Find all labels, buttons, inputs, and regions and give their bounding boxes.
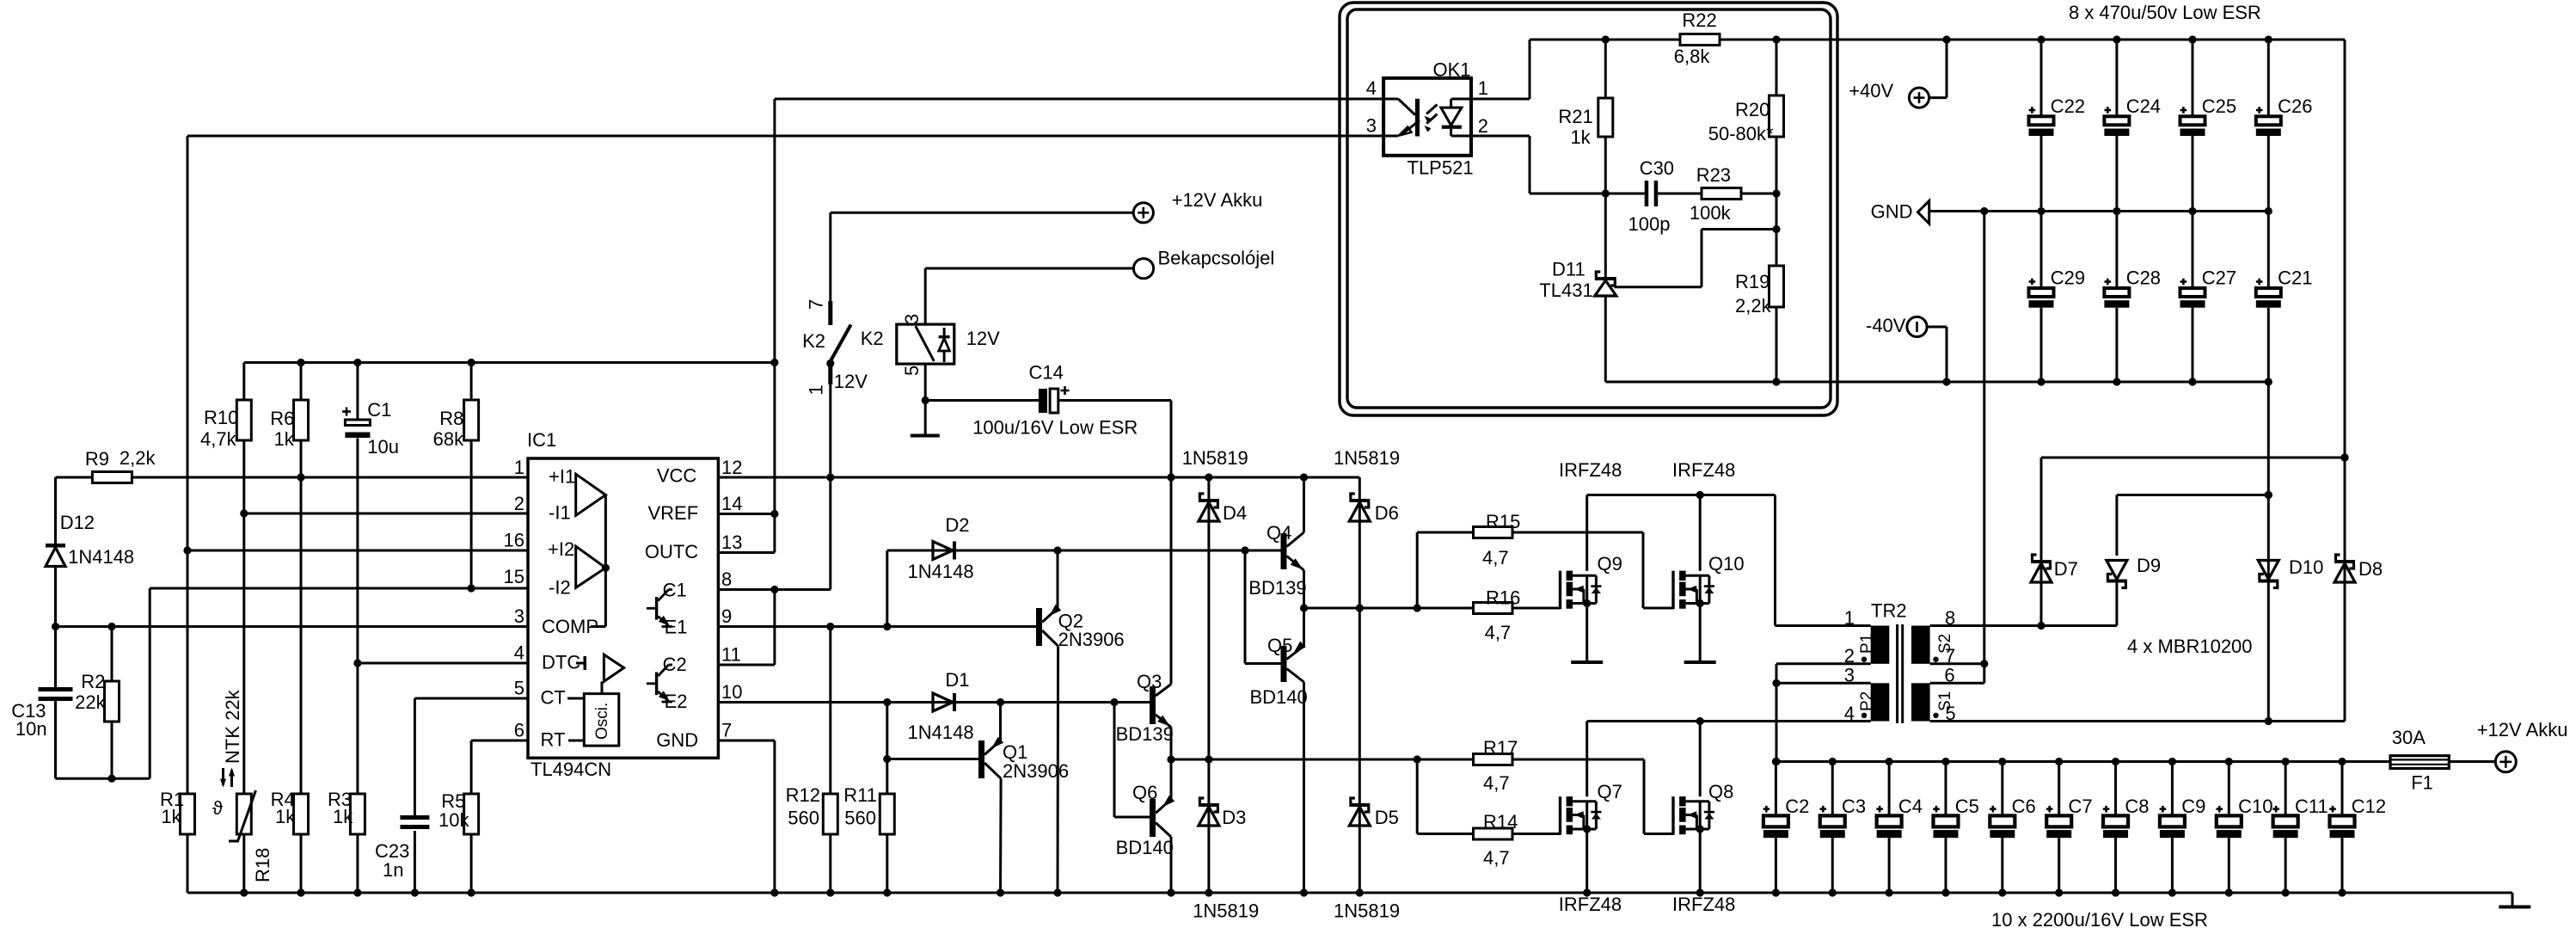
svg-text:R9: R9 bbox=[85, 448, 109, 470]
svg-text:D3: D3 bbox=[1222, 807, 1246, 828]
svg-text:D10: D10 bbox=[2289, 556, 2323, 578]
wire Q10 source to ground bbox=[1699, 604, 1702, 663]
svg-text:30A: 30A bbox=[2392, 727, 2426, 748]
svg-text:C14: C14 bbox=[1029, 362, 1064, 384]
svg-text:S2: S2 bbox=[1936, 634, 1954, 654]
diode D1 1N4148 bbox=[908, 669, 974, 743]
wire ground bus (bottom) bbox=[187, 888, 2512, 906]
svg-text:K2: K2 bbox=[861, 328, 884, 349]
capacitor C21 470u/50v bbox=[2256, 212, 2313, 383]
wire -40V rail bbox=[1605, 378, 2272, 385]
capacitor C4 2200u/16V bbox=[1876, 762, 1923, 894]
wire GND pin7 drop bbox=[718, 740, 775, 893]
svg-text:10: 10 bbox=[721, 681, 742, 703]
svg-text:R10: R10 bbox=[204, 407, 238, 428]
terminal Bekapcsolojel bbox=[1133, 248, 1274, 279]
wire vertical x=901 (pin4 line down to VREF/OUTC) bbox=[770, 99, 778, 553]
resistor R19 2,2k bbox=[1735, 194, 1783, 386]
svg-text:16: 16 bbox=[504, 530, 524, 551]
svg-text:R6: R6 bbox=[270, 408, 294, 429]
wire DTC row bbox=[353, 659, 528, 667]
thermistor R18 NTK 22k bbox=[212, 689, 273, 882]
resistor R4 1k bbox=[271, 789, 309, 834]
resistor R1 1k bbox=[160, 789, 195, 834]
svg-text:Bekapcsolójel: Bekapcsolójel bbox=[1158, 248, 1275, 269]
svg-text:R23: R23 bbox=[1696, 164, 1731, 186]
resistor R11 560 bbox=[843, 784, 894, 834]
diode D2 1N4148 bbox=[908, 514, 974, 582]
capacitor C14 100u/16V Low ESR bbox=[972, 362, 1138, 439]
wire R2 column bbox=[111, 627, 113, 779]
svg-text:2N3906: 2N3906 bbox=[1003, 760, 1069, 782]
wire net OK1 pin 3 line (top horizontal 2) bbox=[187, 135, 1383, 138]
wire net OUTC-to-OK1 pin 4 (top horizontal) bbox=[775, 98, 1383, 101]
capacitor C1 10u bbox=[342, 399, 399, 458]
svg-text:E1: E1 bbox=[665, 617, 688, 638]
svg-text:Q9: Q9 bbox=[1598, 553, 1622, 575]
svg-text:C26: C26 bbox=[2278, 95, 2312, 117]
svg-text:Q5: Q5 bbox=[1267, 635, 1292, 656]
svg-text:68k: 68k bbox=[433, 428, 464, 450]
wire DTC buffer to oscillator bbox=[601, 681, 604, 693]
switch K2 contact bbox=[802, 299, 884, 477]
wire D11 ref bbox=[1615, 225, 1781, 287]
svg-text:R8: R8 bbox=[439, 408, 463, 429]
svg-text:R22: R22 bbox=[1682, 9, 1716, 31]
svg-text:12: 12 bbox=[721, 457, 742, 478]
wire R6/R4 column bbox=[300, 363, 303, 894]
svg-text:12V: 12V bbox=[834, 371, 868, 392]
svg-text:OUTC: OUTC bbox=[645, 541, 698, 562]
capacitor C10 2200u/16V bbox=[2216, 762, 2272, 894]
diode D8 MBR10200 bbox=[2334, 40, 2383, 722]
wire bus y=421 over R10/R6/C1/R8 bbox=[244, 359, 775, 366]
svg-text:4: 4 bbox=[1844, 703, 1855, 724]
capacitor C23 1n bbox=[375, 815, 429, 881]
wire Q6 emitter up bbox=[1170, 759, 1173, 799]
diode D3 1N5819 bbox=[1193, 798, 1259, 922]
ground chassis Q9 bbox=[1571, 661, 1603, 664]
oscillator box inside IC1 bbox=[584, 694, 619, 747]
svg-text:12V: 12V bbox=[966, 328, 1000, 349]
svg-text:1k: 1k bbox=[333, 806, 353, 827]
capacitor C27 470u/50v bbox=[2180, 212, 2237, 383]
svg-text:COMP: COMP bbox=[542, 616, 598, 637]
resistor R2 22k bbox=[75, 671, 119, 722]
fuse F1 30A bbox=[2390, 727, 2449, 794]
svg-text:1N5819: 1N5819 bbox=[1334, 447, 1400, 469]
wire Q8 source to bus bbox=[1699, 829, 1702, 893]
svg-text:C1: C1 bbox=[663, 580, 687, 601]
svg-text:2,2k: 2,2k bbox=[120, 447, 156, 469]
svg-text:C29: C29 bbox=[2051, 267, 2085, 289]
svg-text:TR2: TR2 bbox=[1871, 600, 1907, 622]
transistor Q7 IRFZ48 bbox=[1559, 781, 1622, 915]
wire CT to oscillator bbox=[567, 697, 584, 700]
svg-text:10n: 10n bbox=[15, 718, 47, 740]
wire Q7 source to bus bbox=[1585, 829, 1588, 893]
svg-text:P1: P1 bbox=[1858, 634, 1876, 654]
svg-text:IRFZ48: IRFZ48 bbox=[1559, 459, 1622, 481]
wire Q3 emitter down bbox=[1170, 728, 1173, 760]
svg-text:CT: CT bbox=[541, 687, 566, 709]
svg-text:4,7k: 4,7k bbox=[200, 428, 237, 450]
svg-text:1N5819: 1N5819 bbox=[1334, 900, 1400, 922]
wire gate line lower (Q3/Q6 emitters) bbox=[1167, 755, 1673, 833]
svg-text:1: 1 bbox=[806, 384, 827, 395]
ground chassis at C14 bbox=[911, 434, 940, 438]
svg-text:D9: D9 bbox=[2137, 555, 2161, 576]
capacitor C5 2200u/16V bbox=[1933, 762, 1979, 894]
transistor internal T1 (C1/E1) inside IC1 bbox=[647, 590, 672, 627]
svg-text:S1: S1 bbox=[1936, 691, 1954, 711]
svg-text:+12V Akku: +12V Akku bbox=[1172, 189, 1263, 211]
diode D4 1N5819 bbox=[1182, 447, 1248, 524]
transformer TR2 bbox=[1844, 600, 1956, 725]
svg-text:1N4148: 1N4148 bbox=[908, 722, 974, 743]
svg-text:BD139: BD139 bbox=[1116, 723, 1174, 745]
svg-text:D12: D12 bbox=[60, 512, 95, 533]
wire GND vertical bbox=[1983, 212, 1985, 664]
svg-text:+I2: +I2 bbox=[548, 538, 574, 560]
svg-text:50-80k*: 50-80k* bbox=[1708, 123, 1774, 144]
svg-text:560: 560 bbox=[788, 808, 819, 829]
wire Q2 emitter up bbox=[1057, 550, 1059, 608]
capacitor C9 2200u/16V bbox=[2160, 762, 2206, 894]
svg-text:4,7: 4,7 bbox=[1483, 847, 1510, 869]
IC1 part number label bbox=[531, 759, 611, 780]
wire +12V Akku feed bbox=[831, 212, 1134, 301]
svg-text:1: 1 bbox=[1478, 77, 1488, 99]
IC1 internal pin name labels bbox=[541, 465, 699, 752]
wire -40V link line y=532 bbox=[2041, 453, 2349, 555]
svg-text:C6: C6 bbox=[2012, 796, 2036, 817]
wire C1/C2 pin tie bbox=[718, 477, 830, 665]
svg-text:Q7: Q7 bbox=[1598, 781, 1622, 802]
capacitor C6 2200u/16V bbox=[1990, 762, 2036, 894]
svg-text:4: 4 bbox=[1366, 77, 1377, 99]
wire Q9 source to ground bbox=[1585, 604, 1588, 663]
svg-text:C2: C2 bbox=[663, 654, 687, 675]
relay K2 coil 12V bbox=[897, 314, 1000, 376]
svg-text:R19: R19 bbox=[1735, 271, 1769, 292]
wire Q6 base branch bbox=[1114, 703, 1150, 818]
svg-text:100u/16V Low ESR: 100u/16V Low ESR bbox=[972, 417, 1138, 439]
capacitor C11 2200u/16V bbox=[2272, 762, 2328, 894]
capacitor C8 2200u/16V bbox=[2103, 762, 2150, 894]
svg-text:Q10: Q10 bbox=[1708, 553, 1745, 575]
transistor Q8 IRFZ48 bbox=[1672, 781, 1735, 915]
label 4 x MBR10200 bbox=[2127, 636, 2253, 657]
svg-text:GND: GND bbox=[1871, 201, 1913, 223]
svg-text:4 x MBR10200: 4 x MBR10200 bbox=[2127, 636, 2253, 657]
svg-text:8 x 470u/50v Low ESR: 8 x 470u/50v Low ESR bbox=[2069, 2, 2261, 23]
wire -I1 row bbox=[240, 509, 528, 517]
transistor Q2 2N3906 bbox=[1036, 605, 1125, 650]
wire comparator outputs to COMP pin bbox=[591, 495, 610, 627]
wire D6/D5 column bbox=[1359, 477, 1361, 893]
transistor internal T2 (C2/E2) inside IC1 bbox=[647, 665, 672, 702]
transistor Q3 BD139 bbox=[1116, 671, 1174, 745]
resistor R5 10k bbox=[439, 790, 479, 834]
svg-text:+12V Akku: +12V Akku bbox=[2477, 719, 2568, 740]
svg-text:C4: C4 bbox=[1898, 796, 1923, 817]
wire R9 left to D12 bbox=[56, 477, 93, 544]
wire C14 to VCC/Q3 column bbox=[1058, 401, 1171, 478]
svg-text:E2: E2 bbox=[665, 691, 688, 712]
wire Q3 collector column bbox=[1170, 477, 1173, 685]
svg-text:R12: R12 bbox=[786, 784, 820, 806]
svg-text:DTC: DTC bbox=[542, 652, 580, 673]
resistor R3 1k bbox=[328, 789, 365, 834]
terminal -40V bbox=[1866, 315, 1947, 382]
terminal +12V Akku (right) bbox=[2477, 719, 2568, 772]
wire drain rail to TR2 pin 1 bbox=[1587, 491, 1871, 626]
svg-text:P2: P2 bbox=[1858, 691, 1876, 711]
svg-text:C12: C12 bbox=[2352, 796, 2386, 817]
wire COMP row bbox=[52, 623, 528, 630]
wire C23 column bbox=[414, 831, 416, 893]
svg-text:GND: GND bbox=[656, 729, 698, 751]
transistor Q5 BD140 bbox=[1250, 635, 1308, 708]
svg-text:+I1: +I1 bbox=[549, 466, 575, 488]
wire Q5 collector down bbox=[1303, 682, 1305, 893]
op-amp IC1 TL494CN box bbox=[528, 458, 718, 758]
resistor R8 68k bbox=[433, 400, 479, 450]
svg-text:3: 3 bbox=[1844, 665, 1855, 686]
svg-text:6,8k: 6,8k bbox=[1674, 46, 1711, 67]
IC1 pin numbers bbox=[504, 457, 743, 741]
svg-text:C2: C2 bbox=[1785, 796, 1809, 817]
resistor R12 560 bbox=[786, 784, 838, 834]
terminal +12V Akku (top) bbox=[1133, 189, 1262, 223]
wire RT to oscillator bbox=[568, 740, 584, 742]
capacitor C28 470u/50v bbox=[2104, 212, 2161, 383]
wire TR2 pin 6 jog bbox=[1930, 664, 1984, 684]
resistor R22 6,8k bbox=[1674, 9, 1720, 67]
svg-text:C7: C7 bbox=[2069, 796, 2093, 817]
svg-text:C24: C24 bbox=[2126, 95, 2161, 117]
svg-text:IC1: IC1 bbox=[527, 429, 556, 451]
ground chassis Q10 bbox=[1684, 661, 1716, 664]
svg-text:D5: D5 bbox=[1375, 807, 1399, 828]
svg-text:8: 8 bbox=[721, 568, 732, 590]
transistor Q1 2N3906 bbox=[978, 737, 1069, 782]
wire TR2 pins 2/3 center tap bbox=[1772, 664, 1870, 765]
svg-text:BD140: BD140 bbox=[1116, 837, 1174, 858]
capacitor C13 10n bbox=[11, 687, 72, 740]
resistor R21 1k bbox=[1558, 40, 1612, 194]
wire R8/R5 column bbox=[470, 363, 473, 894]
svg-text:22k: 22k bbox=[75, 691, 106, 713]
op-amp comparator 1 inside IC1 bbox=[576, 474, 606, 515]
svg-text:D2: D2 bbox=[945, 514, 969, 536]
transistor Q9 IRFZ48 bbox=[1559, 459, 1622, 609]
wire D12/C13 column bbox=[54, 566, 57, 778]
svg-text:1n: 1n bbox=[383, 859, 403, 881]
svg-text:2,2k: 2,2k bbox=[1735, 295, 1772, 316]
svg-text:5: 5 bbox=[901, 366, 923, 376]
wire Q1 emitter up bbox=[999, 703, 1002, 741]
resistor R15 4,7 bbox=[1474, 511, 1521, 568]
diode D12 1N4148 bbox=[46, 512, 134, 568]
svg-text:BD140: BD140 bbox=[1250, 686, 1308, 708]
svg-text:2: 2 bbox=[1478, 115, 1488, 137]
svg-text:D11: D11 bbox=[1552, 259, 1585, 280]
svg-text:1N4148: 1N4148 bbox=[68, 546, 134, 568]
resistor R16 4,7 bbox=[1474, 587, 1521, 644]
capacitor C22 470u/50v bbox=[2029, 40, 2086, 212]
svg-text:11: 11 bbox=[721, 644, 741, 666]
svg-text:-40V: -40V bbox=[1866, 315, 1906, 336]
wire Q1 collector down bbox=[999, 778, 1003, 893]
svg-text:4,7: 4,7 bbox=[1485, 622, 1512, 643]
svg-text:C22: C22 bbox=[2051, 95, 2085, 117]
svg-text:4,7: 4,7 bbox=[1483, 772, 1510, 794]
resistor R6 1k bbox=[270, 400, 308, 450]
ground chassis symbol bottom right bbox=[2499, 906, 2530, 909]
svg-text:+40V: +40V bbox=[1849, 80, 1893, 101]
wire R14 branch bbox=[1417, 759, 1560, 834]
diode D5 1N5819 bbox=[1334, 798, 1400, 922]
diode D10 MBR10200 bbox=[2258, 382, 2323, 722]
svg-text:IRFZ48: IRFZ48 bbox=[1672, 459, 1735, 481]
svg-text:14: 14 bbox=[721, 493, 742, 514]
svg-text:R21: R21 bbox=[1558, 106, 1592, 127]
capacitor C30 100p bbox=[1628, 157, 1675, 235]
svg-text:1k: 1k bbox=[161, 806, 181, 827]
svg-text:3: 3 bbox=[514, 605, 524, 627]
svg-text:13: 13 bbox=[721, 532, 742, 553]
wire R11 column bbox=[883, 703, 891, 894]
wire DTC coupling bar bbox=[576, 656, 586, 670]
wire Q1 base bbox=[887, 758, 978, 760]
op-amp DTC buffer triangle inside IC1 bbox=[604, 654, 623, 681]
svg-text:1N5819: 1N5819 bbox=[1182, 447, 1248, 469]
capacitor C12 2200u/16V bbox=[2329, 762, 2386, 894]
IC1 reference label bbox=[527, 429, 556, 451]
svg-text:R15: R15 bbox=[1486, 511, 1520, 532]
transistor Q6 BD140 bbox=[1116, 782, 1175, 858]
wire Q2 collector down bbox=[1057, 646, 1060, 893]
svg-text:100p: 100p bbox=[1628, 213, 1671, 235]
wire GND rail bbox=[1929, 207, 2272, 215]
wire RT row bbox=[471, 740, 528, 794]
wire junction to C14 bbox=[925, 399, 1039, 402]
wire D9/D10 anode line y=575 bbox=[2117, 491, 2272, 556]
svg-text:TLP521: TLP521 bbox=[1408, 157, 1474, 179]
wire OK1 pin 2 jog bbox=[1471, 136, 1530, 194]
wire -I2 row bbox=[150, 584, 528, 778]
capacitor C25 470u/50v bbox=[2180, 40, 2237, 212]
svg-text:VCC: VCC bbox=[657, 465, 697, 487]
svg-text:C1: C1 bbox=[367, 399, 391, 421]
svg-text:Q3: Q3 bbox=[1137, 671, 1162, 692]
svg-text:D6: D6 bbox=[1375, 502, 1399, 524]
label 8 x 470u/50v Low ESR bbox=[2069, 2, 2261, 23]
wire E1 row bbox=[718, 623, 1036, 630]
svg-text:R2: R2 bbox=[81, 671, 105, 692]
svg-text:7: 7 bbox=[806, 299, 827, 310]
wire Q4 collector up bbox=[1303, 477, 1305, 532]
svg-text:9: 9 bbox=[721, 605, 732, 627]
wire node y=905 (C13/R2 bottom) bbox=[56, 775, 150, 783]
wire Bekapcsolojel feed bbox=[925, 268, 1134, 324]
svg-text:C11: C11 bbox=[2295, 796, 2328, 817]
svg-text:D7: D7 bbox=[2054, 558, 2078, 580]
svg-text:1N4148: 1N4148 bbox=[908, 561, 974, 582]
wire R10/R18 column bbox=[242, 363, 245, 894]
svg-text:R14: R14 bbox=[1483, 811, 1518, 833]
wire CT row bbox=[414, 698, 528, 815]
wire D4/D3 column bbox=[1205, 477, 1212, 893]
label 10 x 2200u/16V Low ESR bbox=[1991, 909, 2208, 931]
wire drain rail lower to TR2 pin 4 bbox=[1587, 717, 1871, 796]
wire Q6 collector down bbox=[1170, 837, 1173, 893]
svg-text:IRFZ48: IRFZ48 bbox=[1559, 894, 1622, 915]
svg-text:100k: 100k bbox=[1690, 202, 1732, 224]
svg-text:10u: 10u bbox=[367, 436, 399, 458]
svg-text:5: 5 bbox=[514, 678, 524, 699]
svg-text:7: 7 bbox=[721, 720, 732, 741]
svg-text:R11: R11 bbox=[843, 784, 877, 806]
wire fuse to +12V Akku bbox=[2449, 760, 2495, 763]
capacitor C26 470u/50v bbox=[2256, 40, 2313, 212]
svg-text:C5: C5 bbox=[1955, 796, 1979, 817]
svg-text:C25: C25 bbox=[2202, 95, 2236, 117]
wire TR2 pin 7 to GND column bbox=[1930, 660, 1989, 667]
svg-text:Q4: Q4 bbox=[1267, 522, 1291, 544]
svg-text:1k: 1k bbox=[274, 428, 295, 450]
svg-text:2: 2 bbox=[1844, 645, 1855, 667]
svg-text:F1: F1 bbox=[2411, 772, 2433, 794]
svg-text:ϑ: ϑ bbox=[212, 797, 223, 819]
wire OK1 pin 1 to +40V rail bbox=[1471, 40, 1530, 99]
wire VCC row (pin12 to D6) bbox=[718, 473, 1359, 481]
svg-text:C30: C30 bbox=[1640, 157, 1674, 179]
svg-text:Q6: Q6 bbox=[1132, 782, 1157, 803]
svg-text:-I1: -I1 bbox=[549, 502, 571, 524]
svg-text:-I2: -I2 bbox=[549, 577, 571, 599]
wire node y=225 bbox=[1530, 189, 1781, 197]
svg-text:Osci.: Osci. bbox=[593, 703, 611, 740]
diode D6 1N5819 bbox=[1334, 447, 1400, 524]
wire gate line upper (Q4/Q5 emitters) bbox=[1300, 604, 1561, 611]
svg-text:560: 560 bbox=[844, 808, 876, 829]
svg-text:VREF: VREF bbox=[648, 502, 699, 524]
svg-text:RT: RT bbox=[541, 729, 566, 751]
diode D7 MBR10200 bbox=[2031, 555, 2078, 626]
wire Q5 emitter up bbox=[1303, 608, 1305, 646]
capacitor C29 470u/50v bbox=[2029, 212, 2086, 383]
svg-text:10k: 10k bbox=[439, 809, 469, 831]
resistor R17 4,7 bbox=[1474, 737, 1518, 794]
svg-text:1: 1 bbox=[1844, 607, 1855, 629]
transistor Q10 IRFZ48 bbox=[1672, 459, 1745, 609]
resistor R9 bbox=[85, 447, 156, 483]
optocoupler OK1 TLP521 bbox=[1366, 59, 1488, 179]
svg-text:Q8: Q8 bbox=[1708, 781, 1733, 802]
wire R1 column bbox=[187, 136, 189, 893]
svg-text:3: 3 bbox=[1366, 115, 1377, 137]
svg-text:C21: C21 bbox=[2278, 267, 2312, 289]
svg-text:1N5819: 1N5819 bbox=[1193, 900, 1259, 922]
svg-text:C27: C27 bbox=[2202, 267, 2236, 289]
wire +I2 row bbox=[183, 546, 528, 554]
wire +I1 row (R9 to pin 1) bbox=[132, 473, 528, 481]
svg-text:6: 6 bbox=[514, 720, 524, 741]
svg-text:1k: 1k bbox=[275, 806, 296, 827]
